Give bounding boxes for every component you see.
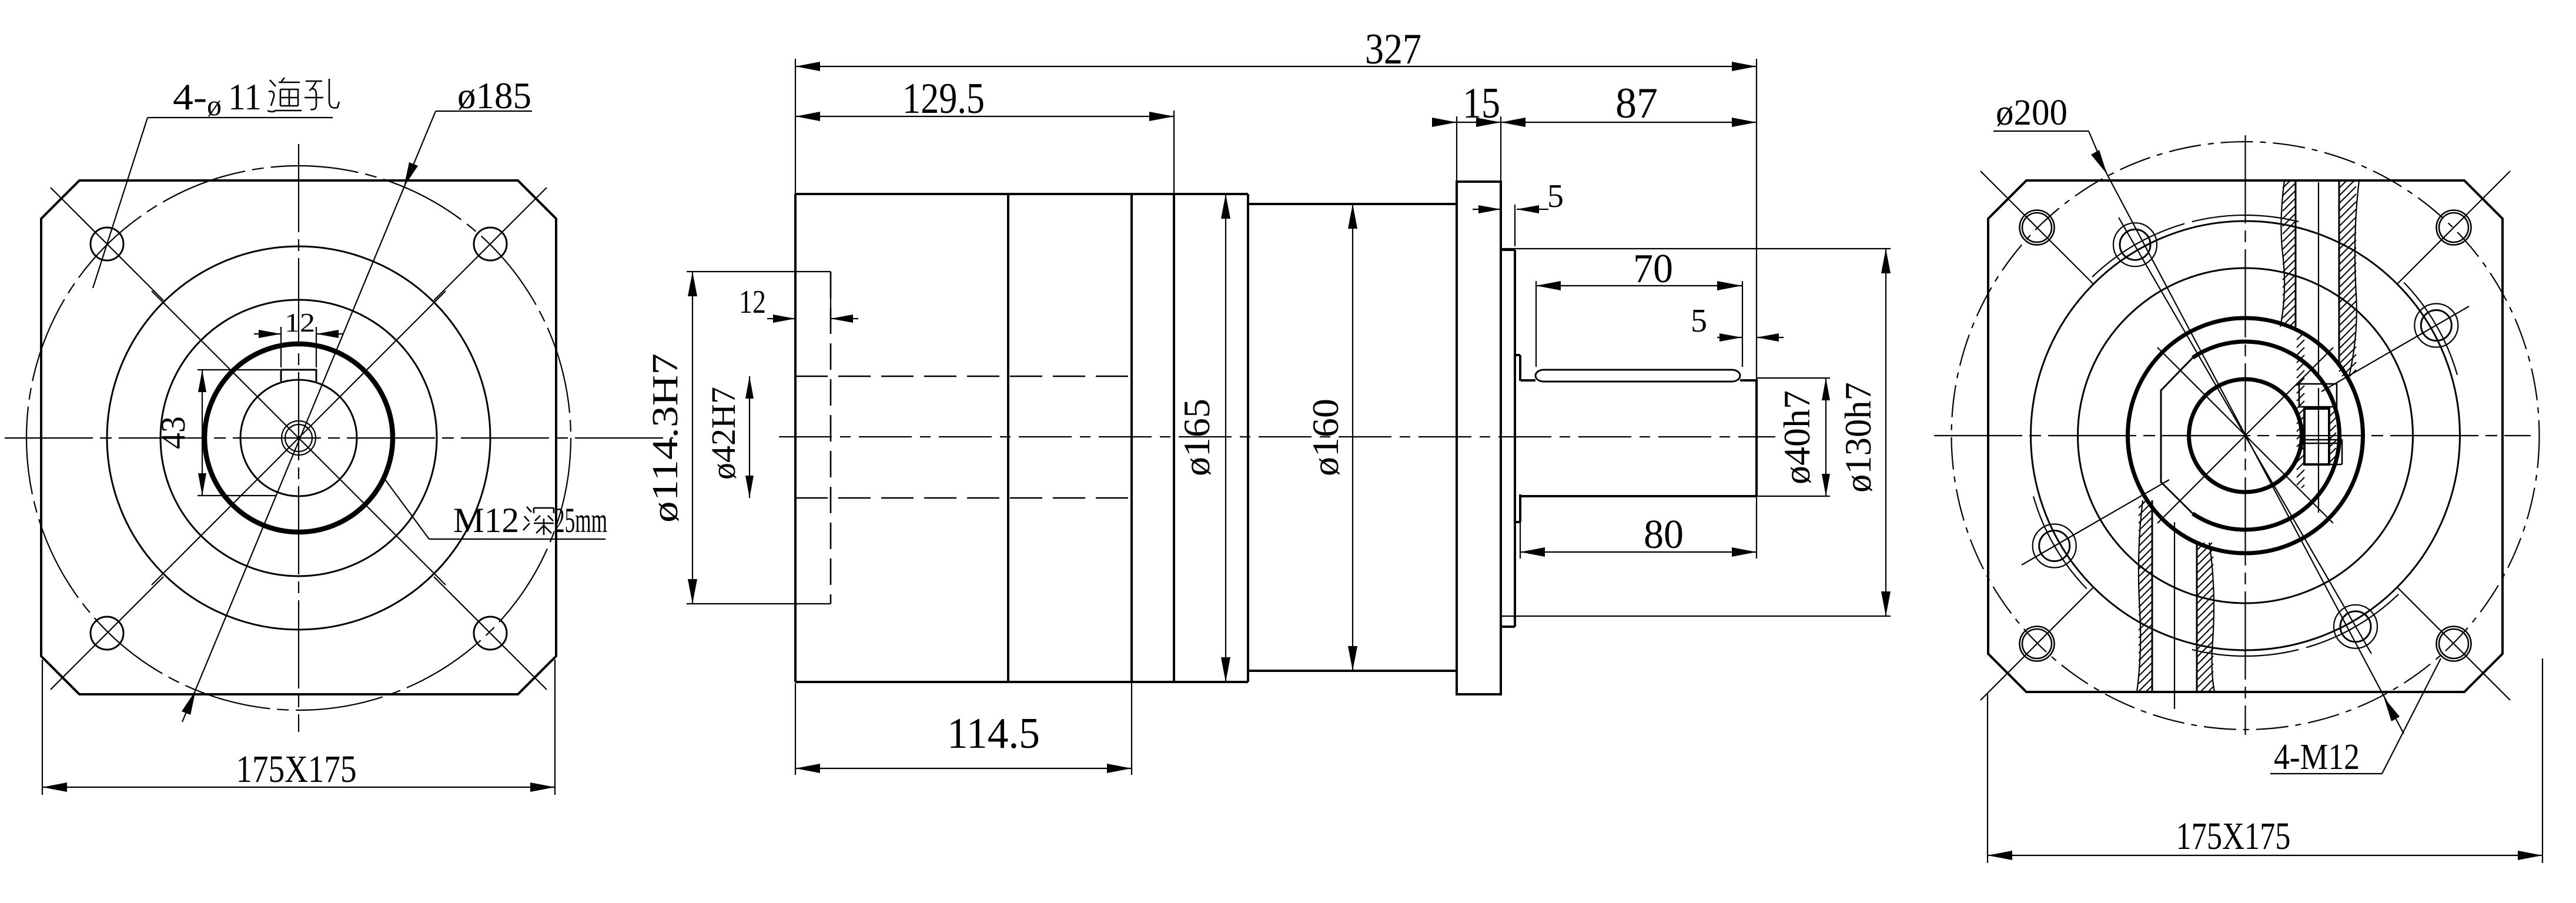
middle view: 327 dim [795,59,796,194]
svg-text:175X175: 175X175 [2176,815,2291,858]
svg-text:43: 43 [154,416,192,449]
middle view: dia165 dim [1225,194,1226,682]
svg-text:ø: ø [207,89,222,122]
svg-text:129.5: 129.5 [902,75,985,123]
middle view: 129.5 dim [1173,111,1175,194]
left view: dia185 diameter line + label [182,111,436,722]
left view: bolt circle dia185 (chain) [26,166,571,710]
right view: dia200 dim + label [1993,131,2089,132]
middle view: output shaft [1521,379,1535,382]
left view: keyway slot [281,370,316,382]
svg-text:80: 80 [1644,512,1684,557]
svg-text:175X175: 175X175 [236,748,357,791]
svg-text:ø185: ø185 [457,75,531,116]
svg-text:327: 327 [1365,25,1421,73]
left view: M12 depth label + leader [429,539,605,540]
left view: centerlines [5,437,673,439]
right view: dia200 bolt circle (chain) [1952,142,2540,730]
middle view: 114.5 dim [795,683,796,775]
middle view: 70 key dim [1535,281,1537,367]
middle view: shaft shoulder lip [1515,354,1520,356]
middle view: 15 and 87 dims [1456,116,1457,182]
right view: 175X175 dim [1987,694,1988,863]
svg-text:ø160: ø160 [1304,399,1346,476]
right view: square flange outline [1988,180,2503,692]
svg-text:ø130h7: ø130h7 [1837,382,1879,493]
middle view: dia114.3H7 dim [687,271,831,272]
right view: corner tapped holes 4-M12 [2020,210,2055,245]
svg-text:87: 87 [1615,79,1658,128]
middle view: dia42H7 dim [749,376,750,498]
svg-text:70: 70 [1633,246,1673,292]
svg-text:M12: M12 [453,501,519,540]
svg-text:4-: 4- [173,76,207,118]
left view: 175X175 dim [42,660,43,795]
middle view: 12 recess dim [830,272,831,325]
left view: bolt holes 4x dia11 [91,228,123,260]
middle view: 80 shaft dim [1520,499,1521,558]
right view: hole axis lines [2318,182,2319,376]
svg-text:ø40h7: ø40h7 [1776,390,1818,484]
middle view: flange plate [1457,182,1501,694]
svg-text:5: 5 [1547,178,1564,215]
svg-text:ø114.3H7: ø114.3H7 [645,353,685,523]
left view: concentric circles [107,246,490,630]
svg-text:5: 5 [1691,303,1707,339]
left view: CJK shen(depth) glyph [523,507,554,535]
middle view: dia130 pilot boss [1501,249,1515,251]
svg-text:ø165: ø165 [1176,399,1217,476]
right view: circles [2031,221,2460,650]
left view: 43 dim [198,369,280,370]
right view: wavy break lines [2280,180,2284,327]
left view: square flange outline [41,180,556,694]
right view: dia160 circle with flat [2193,342,2340,530]
left view: keyway width 12 dim [280,327,282,367]
right view: assembly holes (counterbored) [2414,304,2458,347]
svg-text:4-M12: 4-M12 [2274,737,2360,777]
right view: section hatching [2283,180,2290,188]
right view: section channel walls [2295,180,2297,327]
left view: diagonal center marks [152,291,446,585]
left view: 4-dia11 leader + label [148,117,333,118]
middle view: dia130h7 dim [1501,248,1891,249]
middle view: hidden bore dia42 [795,376,1132,377]
svg-text:11: 11 [228,76,262,118]
middle view: hidden recess dia114.3 [830,272,832,604]
right view: centerlines [1934,435,2531,436]
middle view: 5 lip dim [1514,205,1516,246]
svg-text:15: 15 [1463,79,1500,128]
left view: CJK kong(hole) glyph [305,79,339,109]
svg-text:ø200: ø200 [1996,93,2068,133]
left view: CJK tong(through) glyph [267,78,302,112]
middle view: housing outline [794,194,797,682]
svg-text:ø42H7: ø42H7 [704,387,742,480]
middle view: dia160 section [1248,203,1457,205]
middle view: centerline [779,436,1775,437]
svg-text:25mm: 25mm [554,501,607,540]
middle view: key slot capsule [1535,370,1740,382]
middle view: dia40h7 dim [1757,377,1830,379]
svg-text:12: 12 [739,284,766,320]
middle view: 5 key-end dim [1717,337,1742,338]
right view: diagonal center marks [2157,347,2333,523]
middle view: dia160 dim [1352,204,1353,671]
svg-text:12: 12 [285,307,315,337]
svg-text:114.5: 114.5 [947,710,1040,758]
right view: radial center lines [2119,218,2371,654]
right view: key slot features [2299,384,2337,407]
